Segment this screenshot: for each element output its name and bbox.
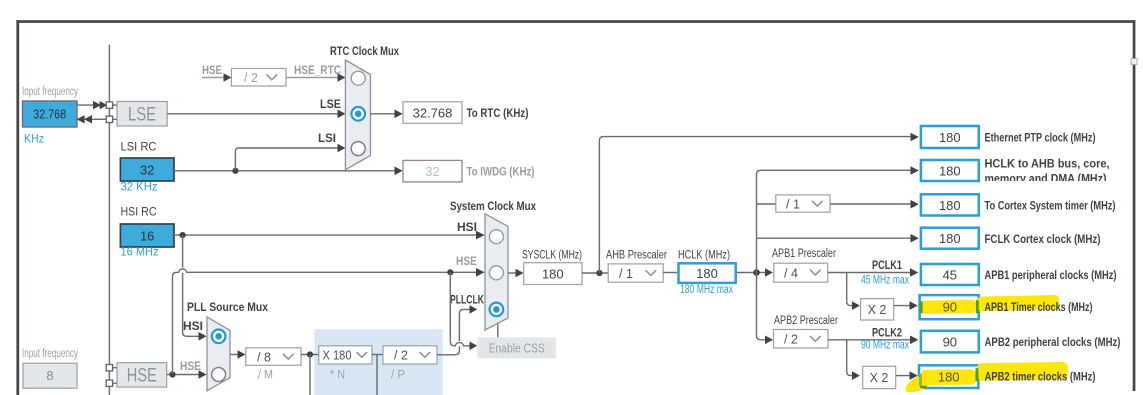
APB2 prescaler dropdown /2 (774, 330, 829, 349)
svg-text:AHB Prescaler: AHB Prescaler (606, 250, 667, 262)
radio LSE (selected) (351, 107, 365, 121)
wire branch to Cortex divider (757, 203, 776, 205)
wire X2 to APB1 timer box (894, 305, 910, 307)
svg-text:LSI RC: LSI RC (121, 142, 157, 154)
frame border top (16, 20, 1135, 23)
svg-text:45 MHz max: 45 MHz max (861, 275, 909, 287)
svg-text:180: 180 (939, 231, 961, 246)
wire HSE_RTC to RTC mux (286, 77, 339, 79)
Ethernet PTP value box (921, 126, 979, 148)
svg-text:/ 4: / 4 (784, 267, 798, 281)
svg-text:180: 180 (939, 130, 961, 145)
wire rail to LSE box (return) (92, 118, 107, 120)
svg-text:90: 90 (943, 300, 957, 315)
wire branch to X2 APB2 (847, 340, 852, 376)
svg-text:180: 180 (542, 266, 564, 281)
svg-text:180: 180 (939, 163, 961, 178)
wire HSE to PLL mux (167, 374, 199, 376)
radio PLL HSI (selected) (212, 330, 226, 344)
svg-text:Enable CSS: Enable CSS (489, 340, 545, 355)
wire mux to SYSCLK (508, 272, 516, 274)
radio LSI (off) (351, 142, 365, 156)
wire SYSCLK riser to Ethernet PTP (599, 137, 911, 273)
junction HSE (169, 371, 175, 377)
wire APB1 to PCLK1 box (828, 272, 911, 274)
svg-text:HSE: HSE (456, 256, 477, 268)
svg-text:LSE: LSE (128, 105, 156, 126)
svg-text:16 MHz: 16 MHz (121, 247, 159, 259)
wire PLL feedback down (309, 355, 311, 395)
svg-text:PCLK2: PCLK2 (872, 327, 902, 339)
green overlap left border (919, 374, 922, 386)
frame border right (1133, 20, 1136, 391)
stub wires pins to LSE osc (113, 104, 117, 106)
wire FCLK (757, 237, 912, 239)
svg-text:To IWDG (KHz): To IWDG (KHz) (467, 167, 535, 179)
wire branch to X2 APB1 (847, 273, 852, 306)
svg-text:System Clock Mux: System Clock Mux (450, 201, 537, 213)
wire HCLK riser up (757, 170, 912, 272)
divider dropdown /8 (/M) (246, 348, 301, 366)
svg-text:APB1 Timer clocks (MHz): APB1 Timer clocks (MHz) (985, 302, 1093, 314)
stub wires pins to HSE osc (113, 367, 117, 369)
green overlap right border (976, 300, 979, 313)
wire LSE box to rail (77, 104, 95, 106)
wire HSE to Enable CSS (bump over PLLCLK) (450, 272, 469, 346)
svg-text:/ 1: / 1 (619, 267, 633, 281)
svg-text:LSI: LSI (318, 133, 336, 145)
junction PLL feedback (307, 351, 313, 357)
svg-text:/ 2: / 2 (244, 71, 258, 85)
svg-text:32.768: 32.768 (413, 105, 453, 120)
svg-text:APB1 Prescaler: APB1 Prescaler (772, 248, 836, 260)
left clock rail (108, 45, 110, 395)
HSE input value box 8 (23, 363, 77, 388)
divider dropdown /2 (/P) (383, 346, 437, 364)
svg-text:45: 45 (943, 267, 957, 282)
svg-text:X 2: X 2 (868, 303, 887, 317)
svg-text:APB2 peripheral clocks (MHz): APB2 peripheral clocks (MHz) (985, 337, 1121, 349)
To RTC value box (403, 102, 462, 124)
radio PLL HSE (off) (212, 368, 226, 382)
HSI RC value box (120, 224, 174, 247)
wire HSI down to PLL mux (183, 235, 199, 336)
wire HSE riser to system mux (bump over HSI) (173, 269, 478, 374)
wire /Q branch down (376, 355, 378, 395)
pin square LSE bottom (106, 116, 112, 122)
Cortex timer value box (921, 194, 979, 215)
multiplier X2 (APB2 timers) (863, 366, 896, 388)
svg-text:90: 90 (943, 335, 957, 350)
LSI RC value box (120, 158, 174, 181)
APB1 prescaler dropdown /4 (774, 263, 828, 282)
APB1 timer value box (920, 295, 979, 319)
underpass gap (457, 341, 463, 346)
svg-text:HSI: HSI (457, 222, 477, 234)
svg-text:To Cortex System timer (MHz): To Cortex System timer (MHz) (985, 200, 1116, 212)
pin square LSE top (106, 102, 112, 108)
RTC Clock Mux U1 (345, 60, 370, 170)
wire LSE to RTC mux (167, 113, 338, 115)
svg-text:/ 2: / 2 (394, 349, 408, 363)
svg-text:90 MHz max: 90 MHz max (861, 340, 909, 352)
wire Enable CSS up-arrow into mux (497, 321, 499, 338)
wire AHB to HCLK (663, 272, 677, 274)
System Clock Mux U3 (485, 214, 508, 330)
wire Cortex divider to box (830, 203, 911, 205)
highlight marker APB1 timer box (921, 300, 976, 314)
LSE oscillator box (117, 102, 167, 127)
svg-text:HCLK to AHB bus, core,: HCLK to AHB bus, core, (985, 159, 1110, 171)
PLL config panel background (314, 329, 442, 395)
svg-text:HSE_RTC: HSE_RTC (294, 65, 341, 77)
svg-text:/ M: / M (258, 370, 273, 382)
svg-text:/ 1: / 1 (786, 197, 800, 211)
HCLK AHB value box (921, 160, 979, 181)
svg-text:HSE: HSE (202, 65, 222, 77)
svg-text:HSI RC: HSI RC (121, 207, 157, 219)
Enable CSS button (477, 337, 556, 358)
wire PLL mux to /M (230, 354, 238, 356)
radio SYS HSI (off) (489, 230, 503, 244)
APB2 timer value box (919, 365, 978, 388)
pin square HSE bottom (106, 380, 112, 386)
svg-text:PLLCLK: PLLCLK (450, 295, 485, 307)
highlight marker APB2 timer tail (906, 375, 929, 393)
svg-text:32.768: 32.768 (33, 107, 66, 122)
SYSCLK value box (524, 263, 582, 285)
underpass gap (180, 268, 186, 273)
svg-text:180 MHz max: 180 MHz max (680, 284, 733, 296)
svg-text:8: 8 (46, 368, 53, 383)
svg-text:180: 180 (938, 369, 960, 384)
svg-text:32 KHz: 32 KHz (121, 182, 158, 194)
svg-text:Ethernet PTP clock (MHz): Ethernet PTP clock (MHz) (985, 133, 1096, 145)
svg-text:RTC Clock Mux: RTC Clock Mux (330, 46, 399, 58)
svg-text:APB2 timer clocks (MHz): APB2 timer clocks (MHz) (985, 371, 1096, 383)
wire HCLK down to APB2 (757, 273, 766, 340)
svg-text:LSE: LSE (320, 99, 341, 111)
svg-text:PCLK1: PCLK1 (872, 260, 902, 272)
svg-text:/ P: / P (391, 370, 405, 382)
multiplier dropdown X180 (*N) (319, 346, 372, 364)
green overlap left border (920, 301, 923, 313)
wire HSE to divider (202, 77, 225, 79)
svg-text:32: 32 (140, 162, 154, 177)
wire APB2 to PCLK2 box (828, 339, 911, 341)
wire LSI to IWDG (174, 170, 396, 172)
wire RTC mux to RTC value (371, 113, 396, 115)
svg-text:FCLK Cortex clock (MHz): FCLK Cortex clock (MHz) (985, 234, 1101, 246)
wire HSI to system mux (174, 234, 477, 236)
svg-text:HSE: HSE (127, 366, 157, 387)
svg-text:180: 180 (696, 266, 718, 281)
svg-text:KHz: KHz (24, 134, 44, 146)
radio SYS HSE (off) (489, 266, 503, 280)
svg-text:/ 2: / 2 (784, 333, 798, 347)
svg-text:HSI: HSI (183, 321, 203, 333)
junction HSI (180, 232, 186, 238)
green overlap right border (976, 368, 979, 381)
handle on right frame (1131, 59, 1137, 65)
svg-text:X 2: X 2 (870, 371, 889, 385)
LSE input value box 32.768 (23, 101, 78, 127)
wire *N to /P (372, 354, 383, 356)
junction SYSCLK (596, 270, 602, 276)
APB1 peripheral value box (921, 264, 979, 285)
PLL Source Mux U2 (207, 317, 230, 391)
svg-text:SYSCLK (MHz): SYSCLK (MHz) (522, 250, 582, 262)
svg-text:/ 8: / 8 (257, 350, 271, 364)
svg-text:To RTC (KHz): To RTC (KHz) (467, 108, 529, 120)
wire HCLK to APB1 (737, 272, 765, 274)
svg-text:X 180: X 180 (323, 349, 352, 363)
junction HSE-CSS (447, 269, 453, 275)
svg-text:PLL Source Mux: PLL Source Mux (187, 302, 269, 314)
svg-text:16: 16 (140, 228, 154, 243)
svg-text:memory and DMA (MHz): memory and DMA (MHz) (985, 174, 1107, 186)
Cortex divider dropdown /1 (776, 195, 830, 212)
green overlap bottom border (920, 386, 927, 389)
junction HCLK (753, 269, 760, 276)
FCLK value box (921, 228, 979, 249)
HCLK value box (blue) (679, 263, 736, 283)
highlight marker APB2 timer label (977, 362, 1068, 381)
highlight marker APB1 timer label (977, 295, 1059, 311)
wire LSI branch to RTC mux (235, 148, 338, 171)
HSE oscillator box (117, 363, 167, 387)
AHB prescaler dropdown /1 (608, 264, 663, 282)
svg-text:Input frequency: Input frequency (22, 348, 78, 360)
svg-text:32: 32 (425, 164, 439, 179)
frame border left (16, 20, 19, 395)
wire X2 to APB2 timer box (896, 375, 910, 377)
APB2 peripheral value box (921, 331, 979, 353)
divider dropdown /2 (HSE_RTC) (231, 69, 286, 87)
radio SYS PLLCLK (selected) (490, 303, 504, 317)
To IWDG value box (403, 160, 462, 182)
wire SYSCLK to AHB (582, 272, 608, 274)
svg-text:* N: * N (330, 370, 345, 382)
svg-text:180: 180 (939, 198, 961, 213)
junction LSI (232, 168, 238, 174)
pin square HSE top (106, 365, 112, 371)
multiplier X2 (APB1 timers) (861, 299, 894, 320)
svg-text:APB2 Prescaler: APB2 Prescaler (774, 315, 838, 327)
highlight marker APB2 timer box (920, 369, 976, 385)
svg-text:HCLK (MHz): HCLK (MHz) (678, 250, 730, 262)
wire /M to *N (301, 354, 319, 356)
svg-text:APB1 peripheral clocks (MHz): APB1 peripheral clocks (MHz) (985, 270, 1117, 282)
svg-text:Input frequency: Input frequency (22, 86, 78, 98)
svg-text:HSE: HSE (180, 361, 201, 373)
radio HSE_RTC (off) (351, 71, 365, 85)
wire PLLCLK to system mux (437, 309, 470, 354)
